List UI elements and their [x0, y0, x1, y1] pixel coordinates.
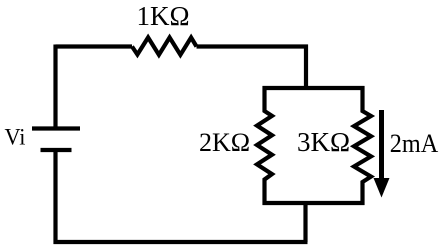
resistor R1 1KOhm zigzag [132, 38, 197, 55]
svg-text:3KΩ: 3KΩ [297, 127, 350, 157]
svg-text:2mA: 2mA [390, 129, 439, 158]
resistor R3 3KOhm vertical zigzag (right branch) [354, 86, 371, 205]
wire bottom stub up to parallel box [303, 203, 307, 242]
wire left vertical upper [53, 45, 57, 129]
wire top-left horizontal [56, 44, 133, 48]
svg-text:Vi: Vi [5, 125, 26, 151]
wire top-right horizontal [197, 44, 309, 48]
wire bottom horizontal [54, 240, 308, 244]
current arrow 2mA shaft [379, 110, 384, 180]
wire left vertical lower [53, 150, 57, 244]
resistor R2 2KOhm vertical zigzag (left branch) [257, 86, 272, 205]
svg-text:2KΩ: 2KΩ [199, 128, 250, 157]
wire parallel box bottom [263, 201, 365, 205]
svg-text:1KΩ: 1KΩ [137, 1, 190, 31]
battery source Vi bottom plate [41, 148, 72, 152]
wire top stub down to parallel box [304, 45, 308, 89]
wire parallel box top [263, 86, 365, 90]
current arrow 2mA head [374, 178, 390, 198]
battery source Vi top plate [32, 126, 80, 130]
